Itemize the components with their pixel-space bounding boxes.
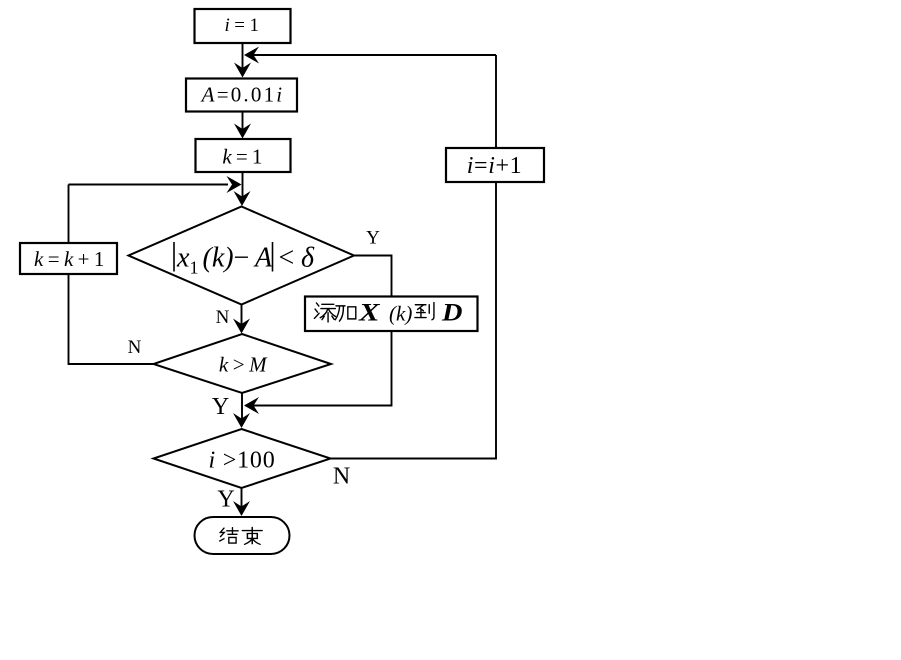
svg-text:(k): (k): [203, 243, 234, 274]
label Y below diamond 2: [212, 394, 229, 420]
wire k-loop horizontal into junction: [69, 176, 242, 193]
decision diamond 3 i>100: [154, 429, 331, 488]
svg-text:Y: Y: [366, 228, 380, 249]
wire from add box down and left into junction above diamond 3: [244, 331, 392, 414]
label N below diamond 1: [216, 307, 230, 328]
process box k=1: [196, 139, 291, 172]
svg-text:N: N: [216, 307, 230, 328]
glyph jie: [220, 528, 239, 543]
svg-text:i >100: i >100: [208, 448, 275, 474]
svg-text:i=i+1: i=i+1: [467, 153, 522, 179]
wire right vertical i-loop: [495, 55, 497, 460]
label Y above terminator: [217, 487, 234, 513]
glyph jia: [335, 306, 355, 321]
svg-text:Y: Y: [212, 394, 229, 420]
svg-text:<: <: [279, 243, 295, 274]
process box i=i+1: [446, 148, 544, 182]
wire feedback from i=i+1 into top junction: [244, 47, 496, 64]
svg-text:1: 1: [190, 258, 199, 278]
svg-text:A=0.01i: A=0.01i: [200, 83, 285, 107]
svg-text:−: −: [234, 243, 250, 274]
wire from diamond 2 bottom to diamond 3: [233, 393, 250, 428]
svg-text:k>M: k>M: [219, 353, 271, 377]
svg-text:(k): (k): [389, 302, 412, 326]
label N below right vertex of diamond 3: [333, 464, 350, 490]
wire from diamond 3 right vertex to right vertical i-loop: [331, 458, 497, 460]
svg-text:N: N: [128, 337, 142, 358]
process box k=k+1: [20, 243, 117, 274]
glyph tian: [314, 303, 335, 322]
wire from diamond 1 right vertex to add box: [354, 256, 392, 297]
glyph shu: [242, 527, 262, 544]
wire from diamond 1 bottom to diamond 2: [233, 305, 250, 334]
svg-text:i=1: i=1: [225, 15, 264, 36]
process box A=0.01i: [186, 79, 297, 112]
svg-text:D: D: [441, 300, 463, 327]
wire from k=k+1 up and right to k-loop junction: [68, 185, 70, 244]
terminator end (jieshu): [195, 517, 290, 554]
wire from A=0.01i to k=1: [234, 112, 251, 139]
svg-text:Y: Y: [217, 487, 234, 513]
decision diamond 1 |x1(k)-A|<delta: [129, 207, 355, 305]
wire from diamond 2 left vertex to k=k+1 box: [69, 275, 154, 365]
wire from i=1 to A=0.01i: [234, 43, 251, 78]
svg-text:A: A: [253, 243, 273, 274]
decision diamond 2 k>M: [154, 334, 332, 393]
wire from diamond 3 bottom to terminator: [233, 488, 250, 516]
svg-text:x: x: [176, 243, 190, 274]
label N left of diamond 2: [128, 337, 142, 358]
svg-text:k=1: k=1: [222, 145, 266, 169]
wire from k=1 to diamond 1: [234, 172, 251, 206]
svg-text:δ: δ: [301, 243, 315, 274]
svg-text:X: X: [358, 300, 381, 327]
process box i=1: [195, 9, 291, 43]
label Y right of diamond 1: [366, 228, 380, 249]
glyph dao: [415, 303, 434, 320]
svg-text:k=k+1: k=k+1: [34, 247, 109, 271]
process box add X(k) to D: [305, 297, 478, 332]
svg-text:N: N: [333, 464, 350, 490]
